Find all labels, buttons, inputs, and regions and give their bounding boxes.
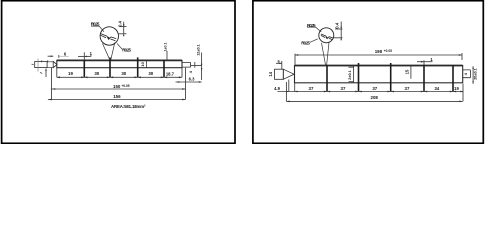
svg-text:37: 37 [309,86,314,91]
svg-text:30: 30 [94,71,99,76]
svg-text:14: 14 [268,71,273,76]
svg-text:15: 15 [405,69,410,74]
svg-text:18.7: 18.7 [166,71,175,76]
svg-text:0.4: 0.4 [335,22,340,28]
svg-text:R0.25: R0.25 [301,41,310,46]
svg-text:10: 10 [140,61,145,66]
svg-text:R0.25: R0.25 [122,47,131,52]
svg-text:30: 30 [121,71,126,76]
svg-text:198: 198 [375,49,383,54]
svg-text:2±0.1: 2±0.1 [348,70,352,79]
svg-text:+0.05: +0.05 [384,49,392,53]
svg-text:6.3: 6.3 [189,77,195,82]
svg-text:34: 34 [434,86,439,91]
svg-text:R0.25: R0.25 [91,21,100,26]
svg-text:R0.25: R0.25 [307,23,316,28]
svg-text:208: 208 [371,95,379,100]
svg-text:30: 30 [148,71,153,76]
svg-text:0.4: 0.4 [117,20,122,26]
svg-text:150: 150 [113,84,121,89]
svg-text:AREA:581.18mm²: AREA:581.18mm² [111,104,146,109]
svg-text:19: 19 [454,86,459,91]
svg-text:1±0.1: 1±0.1 [163,43,167,52]
svg-text:12±0.1: 12±0.1 [197,44,201,56]
svg-text:37: 37 [372,86,377,91]
svg-text:156: 156 [113,94,121,99]
svg-text:37: 37 [405,86,410,91]
svg-text:37: 37 [341,86,346,91]
svg-text:20±0.1: 20±0.1 [473,68,477,80]
svg-text:+0.05: +0.05 [122,84,130,88]
svg-text:4.9: 4.9 [274,86,280,91]
svg-text:19: 19 [68,71,73,76]
